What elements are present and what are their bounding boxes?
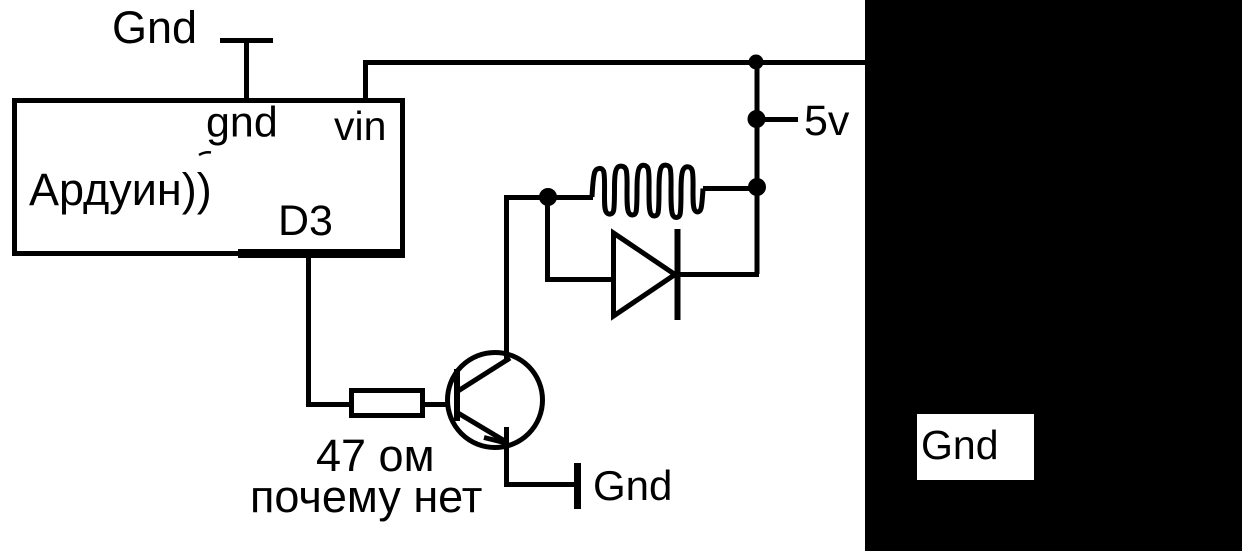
- svg-text:Gnd: Gnd: [593, 462, 672, 509]
- resistor R1 body: [352, 391, 423, 416]
- wire inductor left lead: [548, 195, 593, 200]
- wire top rail: [363, 60, 866, 65]
- ground symbol GND1: [220, 40, 273, 98]
- wire collector branch (horizontal from node A): [504, 195, 550, 200]
- node A: junction dot inductor left: [539, 188, 557, 206]
- wire collector (vertical): [504, 195, 509, 362]
- transistor Q1 emitter arrow barb: [484, 438, 508, 444]
- inductor L1 (hand-drawn coil): [592, 165, 703, 217]
- transistor Q1 emitter stroke: [458, 413, 508, 443]
- junction dot 5v: [748, 110, 766, 128]
- diode D1 triangle: [614, 233, 676, 316]
- junction dot (top rail / 5v rail): [749, 55, 764, 70]
- svg-text:Gnd: Gnd: [921, 422, 999, 468]
- ground symbol GND2 bar: [574, 463, 581, 509]
- wire D3 pin vertical: [306, 256, 311, 407]
- wire emitter vertical: [504, 427, 509, 487]
- svg-text:Ардуин)): Ардуин)): [29, 164, 212, 215]
- wire 5v vertical rail: [755, 62, 760, 274]
- wire emitter to ground: [504, 482, 577, 487]
- wire D3 to resistor: [306, 402, 350, 407]
- svg-text:5v: 5v: [804, 97, 850, 145]
- wire vin pin: [363, 62, 368, 98]
- wire resistor to base: [424, 402, 448, 407]
- diode D1 cathode bar: [675, 229, 681, 320]
- svg-text:gnd: gnd: [206, 99, 278, 147]
- svg-text:D3: D3: [278, 197, 333, 245]
- Arduino block bottom edge thick segment: [238, 249, 405, 258]
- Arduino block U1: [15, 101, 403, 254]
- wire inductor right lead: [703, 186, 757, 191]
- artifact dash above label: [199, 152, 211, 155]
- wire diode cathode to 5v rail: [677, 272, 759, 277]
- svg-text:vin: vin: [334, 103, 386, 149]
- svg-text:почему нет: почему нет: [250, 471, 482, 522]
- black panel (right side): [865, 0, 1242, 551]
- svg-text:Gnd: Gnd: [112, 2, 197, 53]
- transistor Q1 collector stroke: [458, 358, 510, 391]
- wire diode anode branch (vertical from node A): [545, 197, 550, 279]
- label box Gnd (white box in panel): [917, 414, 1034, 480]
- wire diode anode branch (horizontal): [545, 277, 613, 282]
- junction dot inductor right: [748, 178, 766, 196]
- transistor Q1 base bar: [454, 369, 460, 421]
- wire 5v tick: [757, 117, 798, 122]
- transistor Q1 body circle: [448, 353, 543, 448]
